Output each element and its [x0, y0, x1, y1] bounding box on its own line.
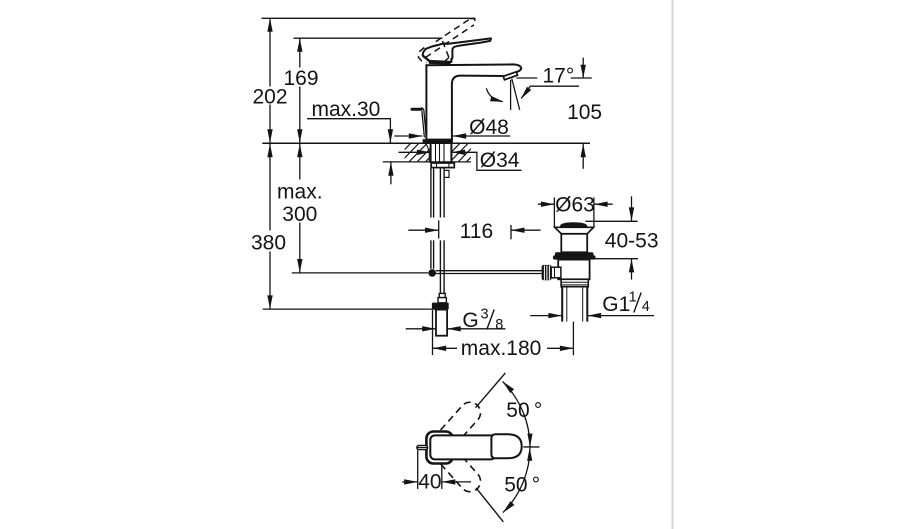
svg-text:Ø48: Ø48: [469, 116, 509, 139]
svg-text:300: 300: [282, 203, 317, 226]
svg-text:50 °: 50 °: [506, 399, 542, 422]
svg-text:3: 3: [481, 307, 489, 323]
svg-text:max.180: max.180: [461, 337, 542, 360]
svg-text:4: 4: [642, 299, 650, 315]
svg-text:380: 380: [251, 232, 286, 255]
svg-text:116: 116: [460, 220, 493, 243]
svg-text:40-53: 40-53: [605, 230, 659, 253]
svg-text:105: 105: [567, 101, 602, 124]
svg-text:169: 169: [283, 67, 318, 90]
svg-text:8: 8: [495, 317, 503, 333]
svg-text:17°: 17°: [543, 64, 575, 87]
svg-text:max.30: max.30: [312, 98, 381, 121]
svg-text:202: 202: [252, 86, 287, 109]
svg-text:G: G: [462, 309, 478, 332]
svg-text:Ø34: Ø34: [480, 149, 520, 172]
svg-text:40: 40: [418, 471, 441, 494]
svg-text:max.: max.: [277, 180, 323, 203]
svg-text:50 °: 50 °: [504, 474, 540, 497]
svg-text:1: 1: [629, 290, 637, 306]
svg-text:G1: G1: [602, 293, 630, 316]
svg-text:Ø63: Ø63: [555, 194, 595, 217]
